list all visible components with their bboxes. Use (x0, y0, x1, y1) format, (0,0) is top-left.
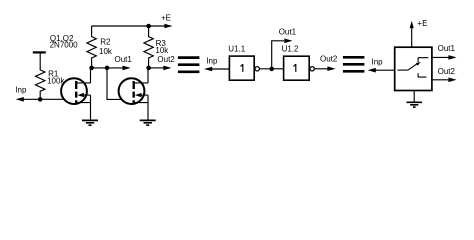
ground bar above R1 (33, 51, 46, 53)
wire U1.2 to Out2 (314, 68, 327, 70)
inversion bubble U1.2 (310, 67, 314, 71)
svg-text:10k: 10k (99, 47, 113, 56)
label 1 in U1.1 (242, 64, 244, 72)
node junction dot R1/Inp (38, 97, 43, 102)
port arrow Out1 (left circuit) (123, 66, 131, 71)
label 1 in U1.2 (295, 64, 297, 72)
wire +E (right circuit) (411, 28, 413, 47)
wire U1.1 to U1.2 (259, 68, 283, 70)
svg-text:+E: +E (417, 19, 427, 28)
switch common stub (398, 69, 409, 71)
svg-text:Inp: Inp (372, 57, 384, 66)
wire Q2 source down (147, 103, 149, 121)
svg-text:U1.2: U1.2 (282, 45, 299, 54)
ground symbol (right circuit) (407, 102, 423, 107)
switch box (395, 47, 432, 90)
switch lever arrowhead (416, 62, 421, 66)
port arrow Out1 (right circuit) (448, 55, 456, 60)
inversion bubble U1.1 (255, 67, 259, 71)
resistor R3 (144, 26, 153, 68)
wire Out2 node line (149, 67, 164, 69)
power arrow +E (left circuit) (164, 24, 172, 29)
port arrow Out2 (middle circuit) (327, 66, 335, 71)
equivalence sign 2 (343, 57, 365, 71)
wire Q2 drain up to Out2 node (147, 68, 149, 83)
svg-text:U1.1: U1.1 (228, 45, 245, 54)
wire Out1 node to Q2 gate (107, 68, 122, 100)
svg-text:Out1: Out1 (279, 28, 297, 37)
wire Out1 node line (92, 67, 123, 69)
node dot Out1 branch (269, 67, 274, 72)
resistor R1 (36, 53, 45, 99)
port arrow Out2 (right circuit) (448, 78, 456, 83)
gate U1.2 box (284, 56, 310, 80)
node dot rail/R3 (146, 24, 151, 29)
port arrow Out1 (middle circuit) (284, 39, 292, 44)
wire Inp to U1.1 (212, 68, 229, 70)
svg-text:Out2: Out2 (157, 55, 175, 64)
gate U1.1 box (229, 56, 254, 80)
port arrow Inp (middle circuit) (204, 67, 212, 72)
wire Out1 branch up (272, 41, 285, 69)
svg-text:R2: R2 (100, 37, 111, 46)
switch lower contact (418, 73, 427, 77)
port arrow Out2 (left circuit) (163, 66, 171, 71)
switch upper contact (418, 58, 428, 62)
wire Q1 source down (90, 103, 92, 121)
svg-text:2N7000: 2N7000 (50, 41, 79, 50)
wire Inp input line (left circuit) (24, 98, 65, 100)
wire Out1 pin (right circuit) (433, 56, 450, 58)
wire ground stub (right circuit) (413, 91, 415, 103)
transistor Q2 (2N7000) (119, 78, 148, 104)
svg-text:Out1: Out1 (115, 55, 133, 64)
node dot R2/Out1 (89, 66, 94, 71)
node dot Q2 gate branch (105, 66, 110, 71)
resistor R2 (87, 26, 96, 68)
ground symbol below Q2 (140, 120, 156, 125)
svg-text:Out2: Out2 (438, 67, 456, 76)
svg-text:Inp: Inp (206, 56, 218, 65)
equivalence sign 1 (178, 58, 200, 72)
transistor Q1 (2N7000) (61, 78, 90, 104)
wire Inp to switch box (376, 69, 395, 71)
svg-text:+E: +E (161, 14, 171, 23)
svg-text:Out1: Out1 (438, 44, 456, 53)
port arrow Inp (right circuit) (368, 68, 376, 73)
svg-text:Out2: Out2 (320, 54, 338, 63)
port arrow Inp (left circuit) (16, 97, 24, 102)
switch lever (408, 63, 418, 70)
ground symbol below Q1 (82, 120, 98, 125)
wire Out2 pin (right circuit) (433, 79, 450, 81)
svg-text:10k: 10k (155, 46, 169, 55)
wire Q1 drain up to Out1 node (90, 68, 92, 83)
svg-text:Inp: Inp (15, 86, 27, 95)
power arrow +E (right circuit) (410, 21, 414, 28)
wire top rail +E (92, 25, 165, 27)
node dot R3/Out2 (146, 66, 151, 71)
